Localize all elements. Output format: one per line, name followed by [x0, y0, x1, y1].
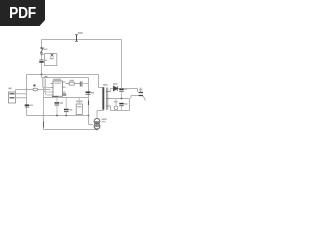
resistor R2	[66, 82, 81, 85]
capacitor C4 vertical plates	[80, 82, 82, 87]
cap C9 polarized dark	[119, 104, 123, 111]
U1 left pins	[51, 84, 54, 96]
U1 side label	[63, 93, 67, 95]
transformer T1 winding	[103, 88, 105, 110]
D2 label	[113, 83, 118, 85]
junction node emitter	[96, 129, 98, 131]
U1 label below	[52, 96, 58, 98]
wire right vert x88	[89, 78, 93, 125]
switch S1	[41, 47, 44, 53]
hop bump on W5	[45, 76, 48, 77]
varistor X in box	[51, 54, 54, 57]
drop to bus2	[43, 116, 45, 130]
transformer core	[107, 88, 108, 110]
secondary bottom wire	[111, 99, 130, 111]
U1 label above	[53, 79, 61, 81]
bus1	[27, 115, 89, 117]
wire J1 to rail	[16, 90, 27, 98]
dark tick x43.5	[43, 122, 45, 128]
IC U1	[53, 81, 63, 96]
transistor Q1	[94, 119, 100, 130]
fuse F2 oval	[33, 88, 38, 91]
wire D1 row	[27, 89, 51, 91]
vertical x43.5 upper	[43, 88, 45, 116]
wire W8	[44, 97, 89, 99]
cap C7 below IC	[55, 98, 60, 116]
dark tick x88	[88, 101, 90, 106]
capacitor C2 polarized	[25, 105, 30, 107]
Q1 leads	[96, 111, 98, 130]
R2 label	[70, 80, 75, 82]
wire cap to bottom	[41, 63, 43, 75]
wire right drop W6	[121, 40, 123, 89]
transformer bottom lead	[97, 109, 104, 112]
junction dots bus1	[43, 115, 45, 117]
C1 label	[45, 60, 47, 61]
connector J1	[9, 92, 16, 103]
C5 label	[124, 88, 127, 90]
PDF badge	[0, 0, 45, 26]
wire left rail W4	[26, 75, 28, 116]
Q1 label	[102, 119, 107, 121]
transformer T1 label	[103, 84, 108, 86]
J2 label	[139, 89, 143, 91]
U1 interior text	[54, 83, 61, 84]
cap C5 polarized dark	[119, 89, 123, 99]
wire top bus	[42, 39, 122, 41]
wire left drop	[41, 40, 43, 48]
output connector J2	[139, 93, 144, 96]
diode D2	[114, 86, 118, 90]
junction dot	[121, 98, 123, 100]
wire switch to cap	[41, 53, 43, 60]
fuse F1	[75, 35, 78, 42]
cap C8 below IC	[64, 98, 72, 116]
J1 terminals	[10, 94, 15, 98]
F2 label	[33, 85, 35, 87]
switch label	[44, 49, 48, 51]
LED DL1	[114, 99, 118, 111]
junction node box link	[41, 54, 43, 56]
box B1 filter block	[44, 54, 56, 66]
junction node	[26, 89, 28, 91]
J2 bottom wire	[131, 96, 139, 99]
C2 label	[30, 105, 33, 107]
J1 label	[9, 88, 12, 90]
C6 label	[91, 92, 94, 94]
U1 right pins	[63, 82, 66, 92]
fuse label	[78, 32, 83, 34]
secondary mid wire	[111, 98, 130, 100]
nested pin routing	[43, 78, 51, 96]
wire to transformer	[99, 75, 103, 88]
transformer stubs	[106, 92, 111, 107]
wire box top link	[42, 54, 46, 56]
wire W5	[42, 75, 89, 78]
wire mid bus W3	[27, 74, 99, 76]
capacitor C6 polarized dark	[86, 92, 91, 94]
resistor R3 box	[76, 98, 82, 115]
box text	[50, 58, 54, 60]
capacitor C1 polarized	[39, 60, 43, 62]
secondary top wire	[111, 89, 138, 93]
bus2	[44, 129, 98, 131]
junction dot	[41, 74, 43, 76]
